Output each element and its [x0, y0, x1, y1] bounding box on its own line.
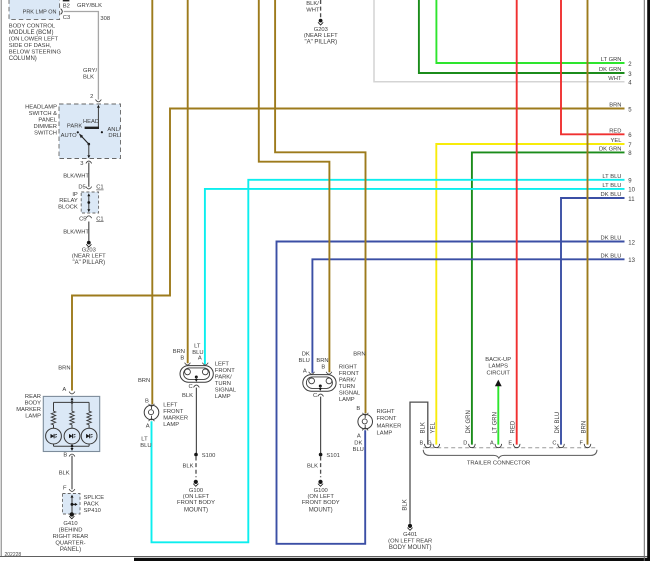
svg-text:ANL/: ANL/ — [107, 127, 120, 133]
left page border — [0, 0, 2, 556]
svg-text:LAMP: LAMP — [215, 394, 231, 400]
svg-text:TURN: TURN — [215, 381, 231, 387]
splice S100 — [194, 453, 198, 457]
svg-text:RED: RED — [511, 420, 517, 433]
node: top bus — [71, 401, 74, 404]
svg-text:G410: G410 — [63, 521, 77, 527]
svg-text:DK GRN: DK GRN — [599, 147, 622, 153]
switch lever arm — [81, 136, 89, 144]
svg-text:QUARTER-: QUARTER- — [55, 540, 85, 546]
wire DK BLU row 11 to trailer pin C — [561, 198, 625, 445]
trailer pin D (DK GRN) — [469, 444, 476, 448]
svg-text:LAMP: LAMP — [163, 422, 179, 428]
right inner hairline border — [643, 0, 645, 561]
svg-text:SP410: SP410 — [84, 508, 101, 514]
headlamp switch & panel dimmer switch box — [59, 104, 121, 159]
svg-text:BLU: BLU — [299, 358, 310, 364]
svg-text:C: C — [552, 441, 556, 447]
svg-text:PANEL): PANEL) — [60, 547, 81, 553]
svg-text:LT BLU: LT BLU — [602, 174, 621, 180]
svg-text:MODULE (BCM): MODULE (BCM) — [9, 30, 54, 36]
svg-text:G203: G203 — [314, 27, 328, 33]
svg-text:D: D — [463, 441, 467, 447]
cut-off label at top edge — [63, 0, 70, 1]
svg-text:"A" PILLAR): "A" PILLAR) — [72, 260, 105, 266]
ground G203 — [87, 241, 91, 245]
wire DK GRN row 8 to trailer pin D — [472, 152, 625, 444]
svg-text:BLK/: BLK/ — [306, 1, 319, 7]
svg-text:B: B — [356, 406, 360, 412]
svg-text:DRL: DRL — [108, 133, 120, 139]
connector C5 / C1 — [86, 216, 92, 218]
svg-text:B2: B2 — [63, 3, 70, 9]
svg-text:BLU: BLU — [192, 350, 203, 356]
svg-text:FRONT BODY: FRONT BODY — [177, 500, 215, 506]
wire WHT row 4 — [374, 0, 625, 82]
svg-text:PRK LMP ON: PRK LMP ON — [23, 9, 57, 15]
trailer pin A (LT GRN) — [495, 444, 502, 448]
svg-text:YEL: YEL — [430, 421, 436, 433]
wire BLK rear lamp to splice pack — [71, 456, 73, 490]
switch internal: HEAD contact line — [97, 105, 100, 108]
svg-text:GRY/BLK: GRY/BLK — [77, 3, 102, 9]
lever to pin 3 — [88, 144, 90, 155]
svg-text:BLK: BLK — [420, 422, 426, 433]
svg-text:BRN: BRN — [582, 421, 588, 434]
svg-text:F: F — [63, 485, 67, 491]
wire YEL row 7 to trailer pin G — [436, 144, 624, 445]
svg-text:B: B — [63, 452, 67, 458]
svg-text:BLK: BLK — [183, 464, 194, 470]
svg-text:(NEAR LEFT: (NEAR LEFT — [72, 253, 106, 259]
svg-text:SIGNAL: SIGNAL — [215, 387, 237, 393]
ANL/DRL contact dot — [101, 131, 103, 133]
trailer connector dashed line — [423, 447, 597, 449]
wire DK BLU row 12 to right front marker lamp — [277, 242, 625, 544]
BCM box (PRK LMP ON) — [9, 0, 60, 20]
svg-text:BLOCK: BLOCK — [58, 204, 78, 210]
svg-text:BLK: BLK — [307, 464, 318, 470]
svg-text:BRN: BRN — [316, 358, 328, 364]
svg-text:MARKER: MARKER — [377, 423, 402, 429]
wire LT BLU row 10 to left front park/turn lamp — [205, 189, 625, 364]
svg-text:PACK: PACK — [84, 502, 99, 508]
lamp internal top feed — [71, 397, 74, 400]
trailer connector brace — [423, 450, 597, 458]
svg-text:SIGNAL: SIGNAL — [339, 390, 361, 396]
svg-text:GRY/: GRY/ — [83, 68, 97, 74]
svg-text:BLU: BLU — [353, 447, 364, 453]
svg-text:BLU: BLU — [140, 443, 151, 449]
svg-text:CIRCUIT: CIRCUIT — [486, 371, 510, 377]
svg-text:2: 2 — [90, 94, 93, 100]
wire DK BLU row 13 to right front park/turn lamp — [312, 259, 624, 373]
svg-text:PARK/: PARK/ — [215, 374, 232, 380]
svg-text:BRN: BRN — [609, 103, 621, 109]
wire RED to trailer pin E — [516, 0, 518, 445]
svg-text:A: A — [62, 387, 66, 393]
wire BRN 1 to left front marker lamp pin B — [151, 0, 153, 404]
svg-text:LAMP: LAMP — [339, 397, 355, 403]
svg-text:LAMP: LAMP — [25, 414, 41, 420]
pin B — [69, 454, 75, 456]
svg-text:(NEAR LEFT: (NEAR LEFT — [304, 33, 338, 39]
svg-text:G100: G100 — [189, 488, 203, 494]
svg-text:DK GRN: DK GRN — [599, 67, 622, 73]
svg-text:12: 12 — [628, 240, 635, 246]
trailer pin C (DK BLU) — [558, 444, 565, 448]
wire BLK trailer pin B to G401 — [410, 402, 428, 523]
svg-text:SPLICE: SPLICE — [84, 495, 105, 501]
svg-text:FRONT BODY: FRONT BODY — [302, 500, 340, 506]
ground G100 — [194, 480, 198, 484]
svg-text:RED: RED — [609, 129, 621, 135]
svg-text:DK BLU: DK BLU — [601, 192, 622, 198]
svg-text:YEL: YEL — [611, 138, 623, 144]
svg-text:PANEL: PANEL — [38, 118, 57, 124]
wire DK GRN row 3 — [419, 0, 625, 73]
svg-text:LT GRN: LT GRN — [492, 412, 498, 433]
wire GRY/BLK circuit 308 — [64, 12, 99, 100]
svg-text:308: 308 — [100, 16, 110, 22]
ground G401 — [408, 524, 412, 528]
svg-text:RIGHT REAR: RIGHT REAR — [53, 534, 89, 540]
AUTO contact dot — [77, 131, 79, 133]
back-up circuit arrowhead — [495, 380, 502, 387]
svg-text:DK BLU: DK BLU — [555, 412, 561, 434]
ground G203 (near left A pillar) — [319, 19, 323, 23]
trailer pin B (BLK) — [425, 444, 432, 448]
svg-text:RIGHT: RIGHT — [339, 364, 357, 370]
splice pack SP410 box — [63, 494, 81, 515]
svg-text:BRN: BRN — [353, 351, 365, 357]
pin bracket — [61, 9, 63, 15]
svg-text:BRN: BRN — [58, 365, 70, 371]
svg-text:REAR: REAR — [25, 394, 41, 400]
svg-text:C5: C5 — [79, 217, 86, 223]
wire BRN 3 to right front park/turn lamp pin B — [259, 0, 330, 372]
svg-text:LAMPS: LAMPS — [488, 364, 508, 370]
svg-text:BODY MOUNT): BODY MOUNT) — [389, 545, 432, 551]
svg-text:SIDE OF DASH,: SIDE OF DASH, — [9, 43, 52, 49]
svg-text:C1: C1 — [96, 185, 103, 191]
trailer pin E (RED) — [513, 444, 520, 448]
svg-text:BLK: BLK — [83, 75, 94, 81]
svg-text:(ON LEFT: (ON LEFT — [183, 494, 210, 500]
svg-text:(ON LEFT REAR: (ON LEFT REAR — [388, 539, 432, 545]
svg-text:BRN: BRN — [138, 378, 150, 384]
svg-text:BLK: BLK — [59, 471, 70, 477]
wire BRN row 5 to rear body marker lamp — [72, 109, 625, 391]
wire RED row 6 — [561, 0, 625, 134]
svg-text:LEFT: LEFT — [163, 402, 178, 408]
wire BLK/WHT (dashed continuation) — [320, 0, 322, 18]
svg-text:BACK-UP: BACK-UP — [485, 357, 511, 363]
svg-text:BRN: BRN — [173, 349, 185, 355]
svg-text:AUTO: AUTO — [61, 133, 77, 139]
svg-text:BODY: BODY — [25, 401, 42, 407]
svg-text:FRONT: FRONT — [377, 416, 397, 422]
svg-text:DK BLU: DK BLU — [601, 254, 622, 260]
svg-text:SWITCH: SWITCH — [34, 131, 57, 137]
svg-text:FRONT: FRONT — [215, 368, 235, 374]
svg-text:BELOW STEERING: BELOW STEERING — [9, 49, 62, 55]
wire BLK/WHT to ground — [88, 222, 90, 241]
svg-text:(BEHIND: (BEHIND — [59, 527, 83, 533]
splice node — [71, 503, 74, 506]
svg-text:G: G — [427, 441, 431, 447]
svg-text:(ON LOWER LEFT: (ON LOWER LEFT — [9, 36, 59, 42]
svg-text:DIMMER: DIMMER — [33, 124, 57, 130]
svg-text:TURN: TURN — [339, 384, 355, 390]
bottom hairline border — [0, 555, 650, 557]
svg-text:LT: LT — [141, 436, 148, 442]
IP relay block box — [81, 192, 98, 213]
svg-text:LT GRN: LT GRN — [601, 57, 622, 63]
node: bottom bus — [54, 445, 90, 447]
svg-text:(ON LEFT: (ON LEFT — [307, 494, 334, 500]
svg-text:MOUNT): MOUNT) — [309, 508, 333, 514]
svg-text:D5: D5 — [78, 184, 85, 190]
svg-text:A: A — [303, 368, 307, 374]
svg-text:TRAILER CONNECTOR: TRAILER CONNECTOR — [467, 460, 530, 466]
svg-text:F: F — [579, 441, 583, 447]
svg-text:WHT: WHT — [608, 76, 622, 82]
ground G410 — [70, 512, 74, 516]
relay block internal wire — [87, 193, 90, 196]
svg-text:MOUNT): MOUNT) — [184, 508, 208, 514]
svg-text:B: B — [419, 441, 423, 447]
wire LT GRN back-up lamps circuit — [497, 385, 499, 444]
svg-text:HEADLAMP: HEADLAMP — [25, 105, 57, 111]
svg-text:FRONT: FRONT — [339, 371, 359, 377]
svg-text:A: A — [357, 433, 361, 439]
svg-text:C3: C3 — [63, 15, 70, 21]
svg-text:DK BLU: DK BLU — [601, 236, 622, 242]
svg-text:DK: DK — [354, 440, 362, 446]
splice S101 — [319, 453, 323, 457]
svg-text:LEFT: LEFT — [215, 361, 230, 367]
svg-text:SWITCH &: SWITCH & — [29, 111, 57, 117]
wire LT GRN row 2 — [436, 0, 624, 63]
svg-text:10: 10 — [628, 188, 635, 194]
svg-text:PARK: PARK — [67, 123, 82, 129]
svg-text:E: E — [508, 441, 512, 447]
bulb branch at x=53.5 — [53, 402, 55, 411]
svg-text:S100: S100 — [202, 453, 216, 459]
svg-text:C: C — [313, 393, 317, 399]
svg-text:DK: DK — [302, 351, 310, 357]
trailer pin F (BRN) — [584, 444, 591, 448]
svg-text:G100: G100 — [314, 488, 328, 494]
wire BLK from pin C to S101 — [320, 397, 322, 454]
svg-text:BODY CONTROL: BODY CONTROL — [9, 23, 56, 29]
wire BRN to trailer pin F — [587, 0, 589, 445]
svg-text:HEAD: HEAD — [83, 119, 99, 125]
right thick border bar — [647, 0, 650, 561]
svg-text:PARK/: PARK/ — [339, 377, 356, 383]
wire LT BLU row 9 to left front marker lamp — [152, 180, 625, 543]
PARK contact bar — [85, 127, 99, 129]
svg-text:202228: 202228 — [5, 552, 22, 558]
svg-text:DK GRN: DK GRN — [466, 410, 472, 433]
svg-text:RELAY: RELAY — [59, 198, 78, 204]
svg-text:BLK: BLK — [402, 499, 408, 510]
svg-text:B: B — [145, 398, 149, 404]
svg-text:A: A — [490, 441, 494, 447]
svg-text:MARKER: MARKER — [163, 415, 188, 421]
svg-text:RIGHT: RIGHT — [377, 409, 395, 415]
bulb branch at x=72 — [71, 402, 73, 411]
svg-text:COLUMN): COLUMN) — [9, 56, 37, 62]
svg-text:LT BLU: LT BLU — [602, 183, 621, 189]
svg-text:LT: LT — [194, 344, 201, 350]
svg-text:LAMP: LAMP — [377, 431, 393, 437]
svg-text:C1: C1 — [96, 216, 103, 222]
svg-text:"A" PILLAR): "A" PILLAR) — [304, 39, 337, 45]
trailer pin G (YEL) — [433, 444, 440, 448]
svg-text:11: 11 — [628, 197, 635, 203]
svg-text:BLK: BLK — [182, 393, 193, 399]
wire BLK/WHT — [88, 163, 90, 187]
wire BRN 2 to left front park/turn lamp pin B — [187, 0, 189, 363]
svg-text:13: 13 — [628, 258, 635, 264]
svg-text:A: A — [146, 424, 150, 430]
wire BRN 4 to right front marker lamp pin B — [275, 0, 365, 413]
svg-text:FRONT: FRONT — [163, 409, 183, 415]
svg-text:WHT: WHT — [306, 7, 320, 13]
svg-text:BLK/WHT: BLK/WHT — [63, 174, 89, 180]
svg-text:BLK/WHT: BLK/WHT — [63, 230, 89, 236]
svg-text:MARKER: MARKER — [16, 407, 41, 413]
svg-text:S101: S101 — [326, 453, 340, 459]
svg-text:A: A — [198, 356, 202, 362]
svg-text:IP: IP — [72, 192, 78, 198]
bulb branch at x=89.1 — [88, 402, 90, 411]
svg-text:B: B — [180, 356, 184, 362]
svg-text:G401: G401 — [403, 532, 417, 538]
ground G100 (S101 leg) — [318, 480, 322, 484]
svg-text:3: 3 — [80, 161, 83, 167]
svg-text:C: C — [189, 384, 193, 390]
svg-text:B: B — [321, 364, 325, 370]
bottom thick border bar — [134, 558, 650, 561]
rear body marker lamp box — [43, 396, 99, 451]
